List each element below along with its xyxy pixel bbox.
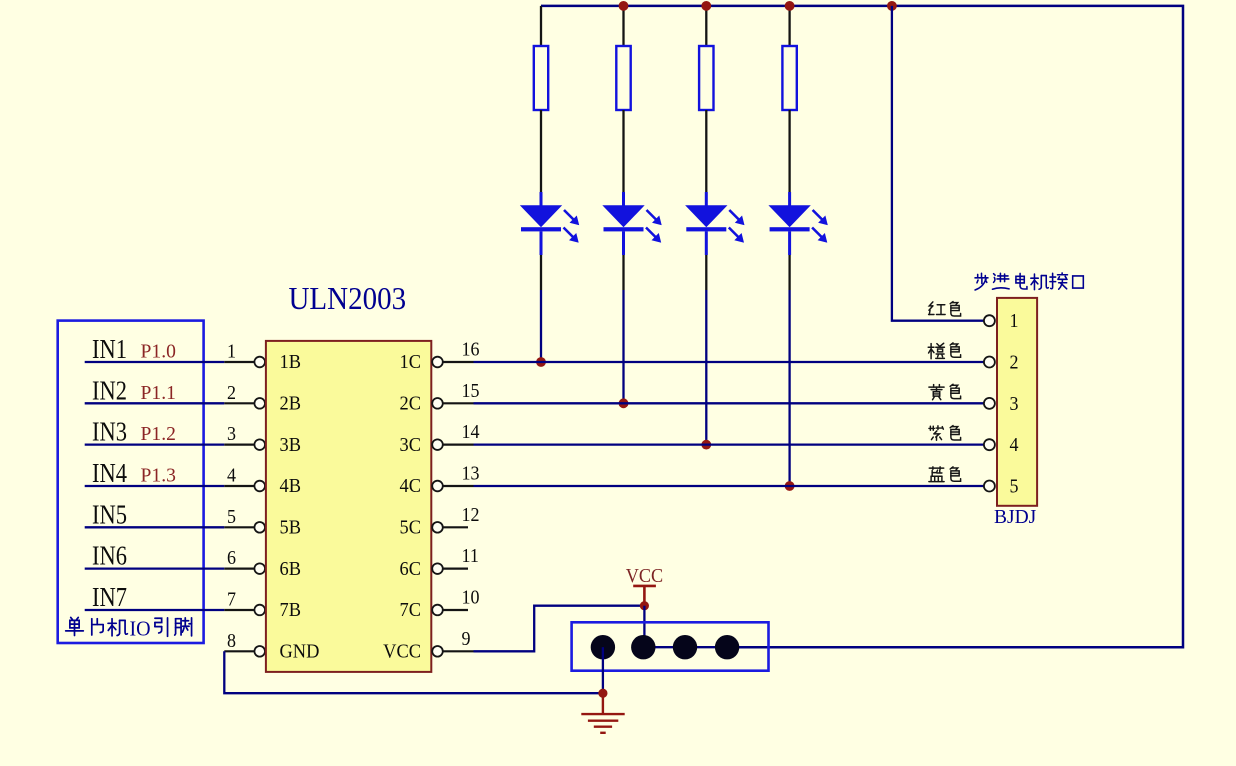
LED D4 <box>770 192 828 255</box>
wire: pad 1 to ground node <box>602 647 604 693</box>
svg-text:4: 4 <box>227 465 237 487</box>
svg-text:14: 14 <box>462 421 481 443</box>
wire: rail to resistor R2 <box>622 6 624 46</box>
connector pin 2 terminal circle <box>984 357 995 368</box>
pin 1 terminal circle <box>254 357 265 368</box>
wire color label row 1 <box>929 302 946 315</box>
wire: resistor R3 to LED D3 <box>705 110 707 192</box>
wire: rail to resistor R3 <box>705 6 707 46</box>
svg-text:16: 16 <box>462 339 480 361</box>
svg-text:7B: 7B <box>280 600 301 622</box>
wire: LED D4 cathode lead <box>788 255 790 290</box>
svg-text:1C: 1C <box>400 352 421 374</box>
wire color label row 4 <box>929 426 943 440</box>
wire: pad2-pad3-pad4 link <box>643 646 727 648</box>
pin 9 lead <box>443 650 474 652</box>
pin 8 lead <box>224 650 254 652</box>
resistor R4 <box>782 46 796 110</box>
wire: 4C output to connector pin 5 <box>474 485 985 487</box>
pin 5 lead <box>224 526 254 528</box>
wire color label row 2 <box>928 343 944 358</box>
svg-text:IN6: IN6 <box>92 540 127 571</box>
svg-text:4C: 4C <box>400 476 421 498</box>
pin 6 terminal circle <box>254 563 265 574</box>
wire: pin 9 VCC to power rail <box>474 606 645 652</box>
wire color label row 3 <box>929 385 944 400</box>
connector: 4-pin power header box <box>572 622 769 670</box>
pin 2 terminal circle <box>254 398 265 409</box>
wire: resistor R4 to LED D4 <box>788 110 790 192</box>
ground <box>581 696 624 733</box>
pin 4 lead <box>224 485 254 487</box>
junction: VCC node <box>640 601 649 610</box>
svg-text:7: 7 <box>227 589 236 611</box>
resistor R2 <box>616 46 630 110</box>
junction: column 4 on row 4C <box>785 481 795 491</box>
svg-text:2: 2 <box>1010 352 1019 374</box>
junction: column 3 on row 3C <box>701 440 711 450</box>
svg-text:3B: 3B <box>280 434 301 456</box>
wire: 3C output to connector pin 4 <box>474 444 985 446</box>
pin 6 lead <box>224 568 254 570</box>
pin 13 lead <box>443 485 474 487</box>
junction: ground node <box>598 689 607 698</box>
wire: resistor R1 to LED D1 <box>540 110 542 192</box>
wire: VCC top rail <box>541 6 1183 647</box>
wire: rail to resistor R1 <box>540 6 542 46</box>
junction: rail at column 4 <box>785 1 795 11</box>
resistor R3 <box>699 46 713 110</box>
pin 14 lead <box>443 444 474 446</box>
connector pin 5 terminal circle <box>984 481 995 492</box>
svg-text:8: 8 <box>227 630 236 652</box>
svg-text:ULN2003: ULN2003 <box>289 281 407 316</box>
label: 单片机IO引脚 <box>66 617 84 635</box>
pin 11 lead <box>443 568 468 570</box>
pin 5 terminal circle <box>254 522 265 533</box>
svg-text:9: 9 <box>462 628 471 650</box>
svg-text:GND: GND <box>280 641 320 663</box>
pin 4 terminal circle <box>254 481 265 492</box>
pin 10 terminal circle <box>432 605 443 616</box>
wire: LED D1 cathode lead <box>540 255 542 290</box>
pad 2 <box>631 635 655 659</box>
op-amp U1: ULN2003 chip body <box>266 341 431 672</box>
wire: LED D3 cathode lead <box>705 255 707 290</box>
wire: IN6 net <box>85 568 225 570</box>
LED D3 <box>686 192 744 255</box>
svg-text:11: 11 <box>462 545 479 567</box>
svg-text:4: 4 <box>1010 434 1020 456</box>
junction: column 2 on row 2C <box>619 398 629 408</box>
label: 步进电机接口 <box>975 273 988 290</box>
svg-text:6: 6 <box>227 547 236 569</box>
pin 14 terminal circle <box>432 439 443 450</box>
wire: GND loop from pin 8 to ground <box>224 651 603 693</box>
svg-text:IN3: IN3 <box>92 416 127 447</box>
pin 15 terminal circle <box>432 398 443 409</box>
svg-text:3C: 3C <box>400 434 421 456</box>
junction: rail at red-wire drop <box>887 1 897 11</box>
box: MCU IO pins (单片机IO引脚) <box>58 321 204 643</box>
pin 13 terminal circle <box>432 481 443 492</box>
pad 4 <box>715 635 739 659</box>
junction: rail at column 3 <box>701 1 711 11</box>
pin 12 lead <box>443 526 468 528</box>
svg-text:P1.3: P1.3 <box>141 465 177 486</box>
svg-text:IN5: IN5 <box>92 499 127 530</box>
pin 7 terminal circle <box>254 605 265 616</box>
wire color label row 5 <box>929 467 944 482</box>
pin 9 terminal circle <box>432 646 443 657</box>
wire: resistor R2 to LED D2 <box>622 110 624 192</box>
svg-text:6B: 6B <box>280 558 301 580</box>
pin 16 terminal circle <box>432 357 443 368</box>
connector J1: stepper interface box <box>997 298 1037 506</box>
wire: IN1 net <box>85 361 225 363</box>
svg-text:P1.0: P1.0 <box>141 342 177 363</box>
wire: LED D2 to output row 2C <box>622 290 624 403</box>
wire: IN3 net <box>85 444 225 446</box>
svg-text:P1.2: P1.2 <box>141 424 176 445</box>
svg-text:1: 1 <box>1010 310 1019 332</box>
wire: rail to resistor R4 <box>788 6 790 46</box>
svg-text:3: 3 <box>227 423 236 445</box>
svg-text:VCC: VCC <box>383 641 421 663</box>
svg-text:5B: 5B <box>280 517 301 539</box>
wire: IN7 net <box>85 609 225 611</box>
wire: LED D1 to output row 1C <box>540 290 542 362</box>
svg-text:2B: 2B <box>280 393 301 415</box>
svg-text:15: 15 <box>462 380 480 402</box>
svg-text:3: 3 <box>1010 393 1019 415</box>
wire: IN5 net <box>85 526 225 528</box>
svg-text:5: 5 <box>227 506 236 528</box>
svg-text:2: 2 <box>227 382 236 404</box>
pin 7 lead <box>224 609 254 611</box>
pin 3 lead <box>224 444 254 446</box>
LED D1 <box>521 192 579 255</box>
wire: LED D4 to output row 4C <box>788 290 790 486</box>
pin 16 lead <box>443 361 474 363</box>
svg-text:BJDJ: BJDJ <box>994 507 1037 528</box>
svg-text:10: 10 <box>462 587 480 609</box>
svg-text:1: 1 <box>227 341 236 363</box>
svg-text:4B: 4B <box>280 476 301 498</box>
wire: LED D3 to output row 3C <box>705 290 707 445</box>
svg-text:6C: 6C <box>400 558 421 580</box>
LED D2 <box>604 192 662 255</box>
power symbol VCC <box>633 586 656 603</box>
pad 3 <box>673 635 697 659</box>
svg-text:5: 5 <box>1010 476 1019 498</box>
pad 1 <box>591 635 615 659</box>
resistor R1 <box>534 46 548 110</box>
wire: IN2 net <box>85 402 225 404</box>
svg-text:2C: 2C <box>400 393 421 415</box>
wire: IN4 net <box>85 485 225 487</box>
svg-text:1B: 1B <box>280 352 301 374</box>
connector pin 1 terminal circle <box>984 315 995 326</box>
wire: LED D2 cathode lead <box>622 255 624 290</box>
wire: VCC node to pad 2 <box>643 606 645 648</box>
svg-text:IN1: IN1 <box>92 334 127 365</box>
pin 3 terminal circle <box>254 439 265 450</box>
pin 15 lead <box>443 402 474 404</box>
wire: rail down to connector pin 1 (red) <box>892 6 984 321</box>
pin 10 lead <box>443 609 468 611</box>
wire: 1C output to connector pin 2 <box>474 361 985 363</box>
connector pin 3 terminal circle <box>984 398 995 409</box>
wire: 2C output to connector pin 3 <box>474 402 985 404</box>
svg-text:IN4: IN4 <box>92 458 127 489</box>
svg-text:12: 12 <box>462 504 480 526</box>
pin 11 terminal circle <box>432 563 443 574</box>
junction: column 1 on row 1C <box>536 357 546 367</box>
junction: rail at column 2 <box>619 1 629 11</box>
connector pin 4 terminal circle <box>984 439 995 450</box>
svg-text:13: 13 <box>462 463 480 485</box>
svg-text:5C: 5C <box>400 517 421 539</box>
svg-text:VCC: VCC <box>626 565 663 587</box>
pin 2 lead <box>224 402 254 404</box>
svg-text:IN7: IN7 <box>92 582 127 613</box>
pin 8 terminal circle <box>254 646 265 657</box>
svg-text:IO: IO <box>130 618 151 641</box>
pin 1 lead <box>224 361 254 363</box>
svg-text:P1.1: P1.1 <box>141 383 176 404</box>
svg-text:IN2: IN2 <box>92 375 127 406</box>
svg-text:7C: 7C <box>400 600 421 622</box>
pin 12 terminal circle <box>432 522 443 533</box>
